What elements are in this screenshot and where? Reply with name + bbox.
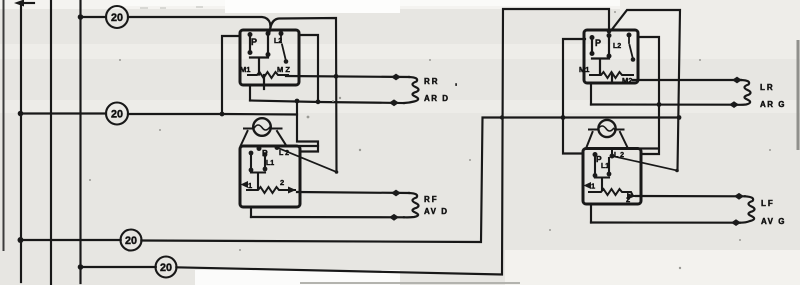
node cross y117 x502 xyxy=(500,115,504,119)
svg-text:P: P xyxy=(251,37,257,47)
wire LF feed M2 to coil xyxy=(636,195,745,197)
wire fuse1 right xyxy=(128,17,271,27)
contact P bracket S2 xyxy=(251,153,265,189)
switch blade L2 diagonal S4 xyxy=(612,156,677,171)
svg-text:L2: L2 xyxy=(274,38,282,45)
arrow RF return xyxy=(389,214,399,221)
svg-text:2: 2 xyxy=(280,178,284,187)
svg-text:1: 1 xyxy=(248,181,252,190)
node cross y117 x679 xyxy=(677,115,682,120)
switch S2 body xyxy=(240,146,300,207)
node F2 tap xyxy=(18,111,24,117)
svg-text:LF: LF xyxy=(761,199,775,208)
wire bus vertical V1 xyxy=(20,3,22,282)
svg-text:L1: L1 xyxy=(601,163,609,170)
wire RF return to coil xyxy=(251,216,404,218)
contact P bracket S3 xyxy=(592,36,609,75)
wire fuse2 right xyxy=(128,113,297,116)
node cross y117 x563 xyxy=(561,115,566,120)
switch S3 body xyxy=(584,30,638,83)
pin P terminals S4 xyxy=(593,152,598,157)
wire S3 left feed riser x563 down to S4 xyxy=(563,39,585,154)
svg-text:L2: L2 xyxy=(613,43,621,50)
fuse F2 (20A) xyxy=(106,103,128,125)
wire RF return M1 stub xyxy=(250,207,252,217)
svg-text:M1: M1 xyxy=(579,65,589,74)
arrow M1 S4 xyxy=(584,182,592,189)
pin bar stub S1 xyxy=(263,75,265,89)
wire RR feed M2 to coil xyxy=(286,76,409,77)
node x659 on LR return xyxy=(657,102,662,107)
pin L2 terminal S1 xyxy=(279,31,284,36)
wire S4 top edge extension xyxy=(641,147,658,149)
switch blade L2 S3 xyxy=(629,35,633,57)
wire bus vertical V3 xyxy=(79,0,81,283)
wire RR return to coil xyxy=(250,101,404,104)
node S3 top xyxy=(607,29,612,34)
svg-text:2: 2 xyxy=(626,195,630,204)
breaker CB2 circle xyxy=(598,120,615,137)
svg-text:M2: M2 xyxy=(622,76,632,85)
wire LR return to coil xyxy=(591,103,736,105)
switch blade L2 S1 xyxy=(281,34,286,60)
coil LF (motor winding) xyxy=(740,196,755,222)
resistor bus bar S1 xyxy=(248,72,288,78)
scan artifact pencil dashes xyxy=(140,7,203,8)
wire S3 diagonal feed to x681 riser xyxy=(612,10,681,170)
resistor bus bar S4 xyxy=(589,189,636,196)
svg-text:LR: LR xyxy=(760,83,775,92)
svg-text:': ' xyxy=(455,82,457,92)
scan edge line xyxy=(3,0,5,250)
svg-text:20: 20 xyxy=(111,109,123,121)
coil RR (motor winding) xyxy=(404,77,419,103)
pin P terminals S1 xyxy=(248,32,253,37)
arrowhead top-left xyxy=(14,0,24,7)
arrow LF return xyxy=(731,219,741,226)
scan artifact speckles xyxy=(89,11,771,269)
arrow LR return xyxy=(729,101,739,108)
wire fuse4 right + riser x501 + top run to S3 xyxy=(176,9,609,275)
svg-text:20: 20 xyxy=(125,235,137,247)
switch S4 body xyxy=(583,149,641,205)
svg-text:P: P xyxy=(595,38,601,48)
wire drop into switch S1 xyxy=(270,27,271,32)
contact P bracket S4 xyxy=(595,155,609,191)
svg-text:P: P xyxy=(262,148,268,158)
wire fuse1 left xyxy=(81,16,107,18)
svg-text:L1: L1 xyxy=(266,160,274,167)
svg-text:AR D: AR D xyxy=(424,94,450,103)
wire branch V297 down to S2 feed ladder xyxy=(297,101,318,152)
arrow M2 S2 xyxy=(288,187,296,194)
arrow LF feed xyxy=(734,193,744,200)
wire LR return M1 stub xyxy=(590,83,592,105)
wire fuse2 left xyxy=(20,112,106,114)
wire riser to switch S1 left xyxy=(222,36,240,114)
scan artifact: bottom smudge line xyxy=(300,282,520,284)
breaker CB1 circle xyxy=(253,118,271,136)
pin L2 terminal S3 xyxy=(627,33,632,38)
resistor bus bar S3 xyxy=(590,72,633,78)
switch S1 body xyxy=(240,30,299,85)
scan artifact right edge streak xyxy=(797,40,800,150)
coil RF (motor winding) xyxy=(404,193,419,217)
svg-text:L 2: L 2 xyxy=(279,150,289,157)
svg-text:M1: M1 xyxy=(240,65,250,74)
fuse F3 (20A) xyxy=(121,230,142,251)
arrow RR return xyxy=(389,99,399,106)
svg-text:M Z: M Z xyxy=(277,65,290,74)
pin P terminals S2 xyxy=(257,146,262,151)
svg-text:20: 20 xyxy=(111,12,123,24)
svg-text:RR: RR xyxy=(424,77,440,86)
breaker CB2 wings xyxy=(589,129,624,131)
node F3 tap xyxy=(18,237,24,243)
svg-text:L 2: L 2 xyxy=(614,152,624,159)
fuse F4 (20A) xyxy=(156,257,177,278)
switch blade L2 diagonal S2 xyxy=(277,148,337,173)
wire LF return to coil xyxy=(591,221,740,223)
wire fuse3 right + riser x483 + cross wire y117 xyxy=(141,118,679,243)
arrow LR feed xyxy=(732,77,742,84)
breaker CB1 wave xyxy=(255,125,270,130)
svg-text:AV D: AV D xyxy=(424,207,449,216)
svg-text:AR G: AR G xyxy=(760,100,786,109)
node riser junction xyxy=(220,112,225,117)
contact P bracket S1 xyxy=(250,34,268,75)
svg-text:20: 20 xyxy=(160,262,172,274)
breaker CB2 wave xyxy=(599,126,614,131)
arrow RF feed xyxy=(391,190,401,197)
arrow M2 S4 xyxy=(627,193,635,200)
node F4 tap xyxy=(78,264,84,270)
resistor bus bar S2 xyxy=(247,187,295,193)
breaker CB2 mount trapezoid xyxy=(586,132,628,155)
wire S1 upper right wrap x318 xyxy=(299,35,318,102)
wire RR return M1 stub xyxy=(249,85,251,101)
arrow M1 S2 xyxy=(241,181,249,188)
svg-text:AV G: AV G xyxy=(761,217,786,226)
wire S2 top edge extension xyxy=(300,145,318,147)
arrow RR feed xyxy=(391,74,401,81)
wire top arrow stub xyxy=(22,2,34,4)
node F1 tap xyxy=(78,14,84,20)
wire LR feed M2 to coil xyxy=(633,79,741,81)
svg-text:RF: RF xyxy=(424,195,439,204)
wire RF feed M2 to coil xyxy=(297,192,409,193)
breaker CB1 mount trapezoid xyxy=(241,131,287,146)
node V297 tap xyxy=(295,99,300,104)
wire fuse3 left xyxy=(20,239,121,241)
svg-text:1: 1 xyxy=(591,182,595,191)
fuse F1 (20A) xyxy=(106,6,128,28)
wire LF return M1 stub xyxy=(590,204,592,223)
wire bus vertical V2 xyxy=(50,0,52,285)
pin P terminals S3 xyxy=(590,35,595,40)
node x318 on RR return xyxy=(316,99,321,104)
breaker CB1 wings xyxy=(244,128,282,130)
wire fuse4 left xyxy=(81,266,156,268)
node x336 on RR feed xyxy=(334,74,339,79)
pin bar stub S3 xyxy=(611,75,613,83)
wire branch to bus riser x336 xyxy=(271,18,337,172)
wire S3 upper right wrap x659 down to S4 xyxy=(638,37,659,154)
coil LR (motor winding) xyxy=(736,80,751,105)
